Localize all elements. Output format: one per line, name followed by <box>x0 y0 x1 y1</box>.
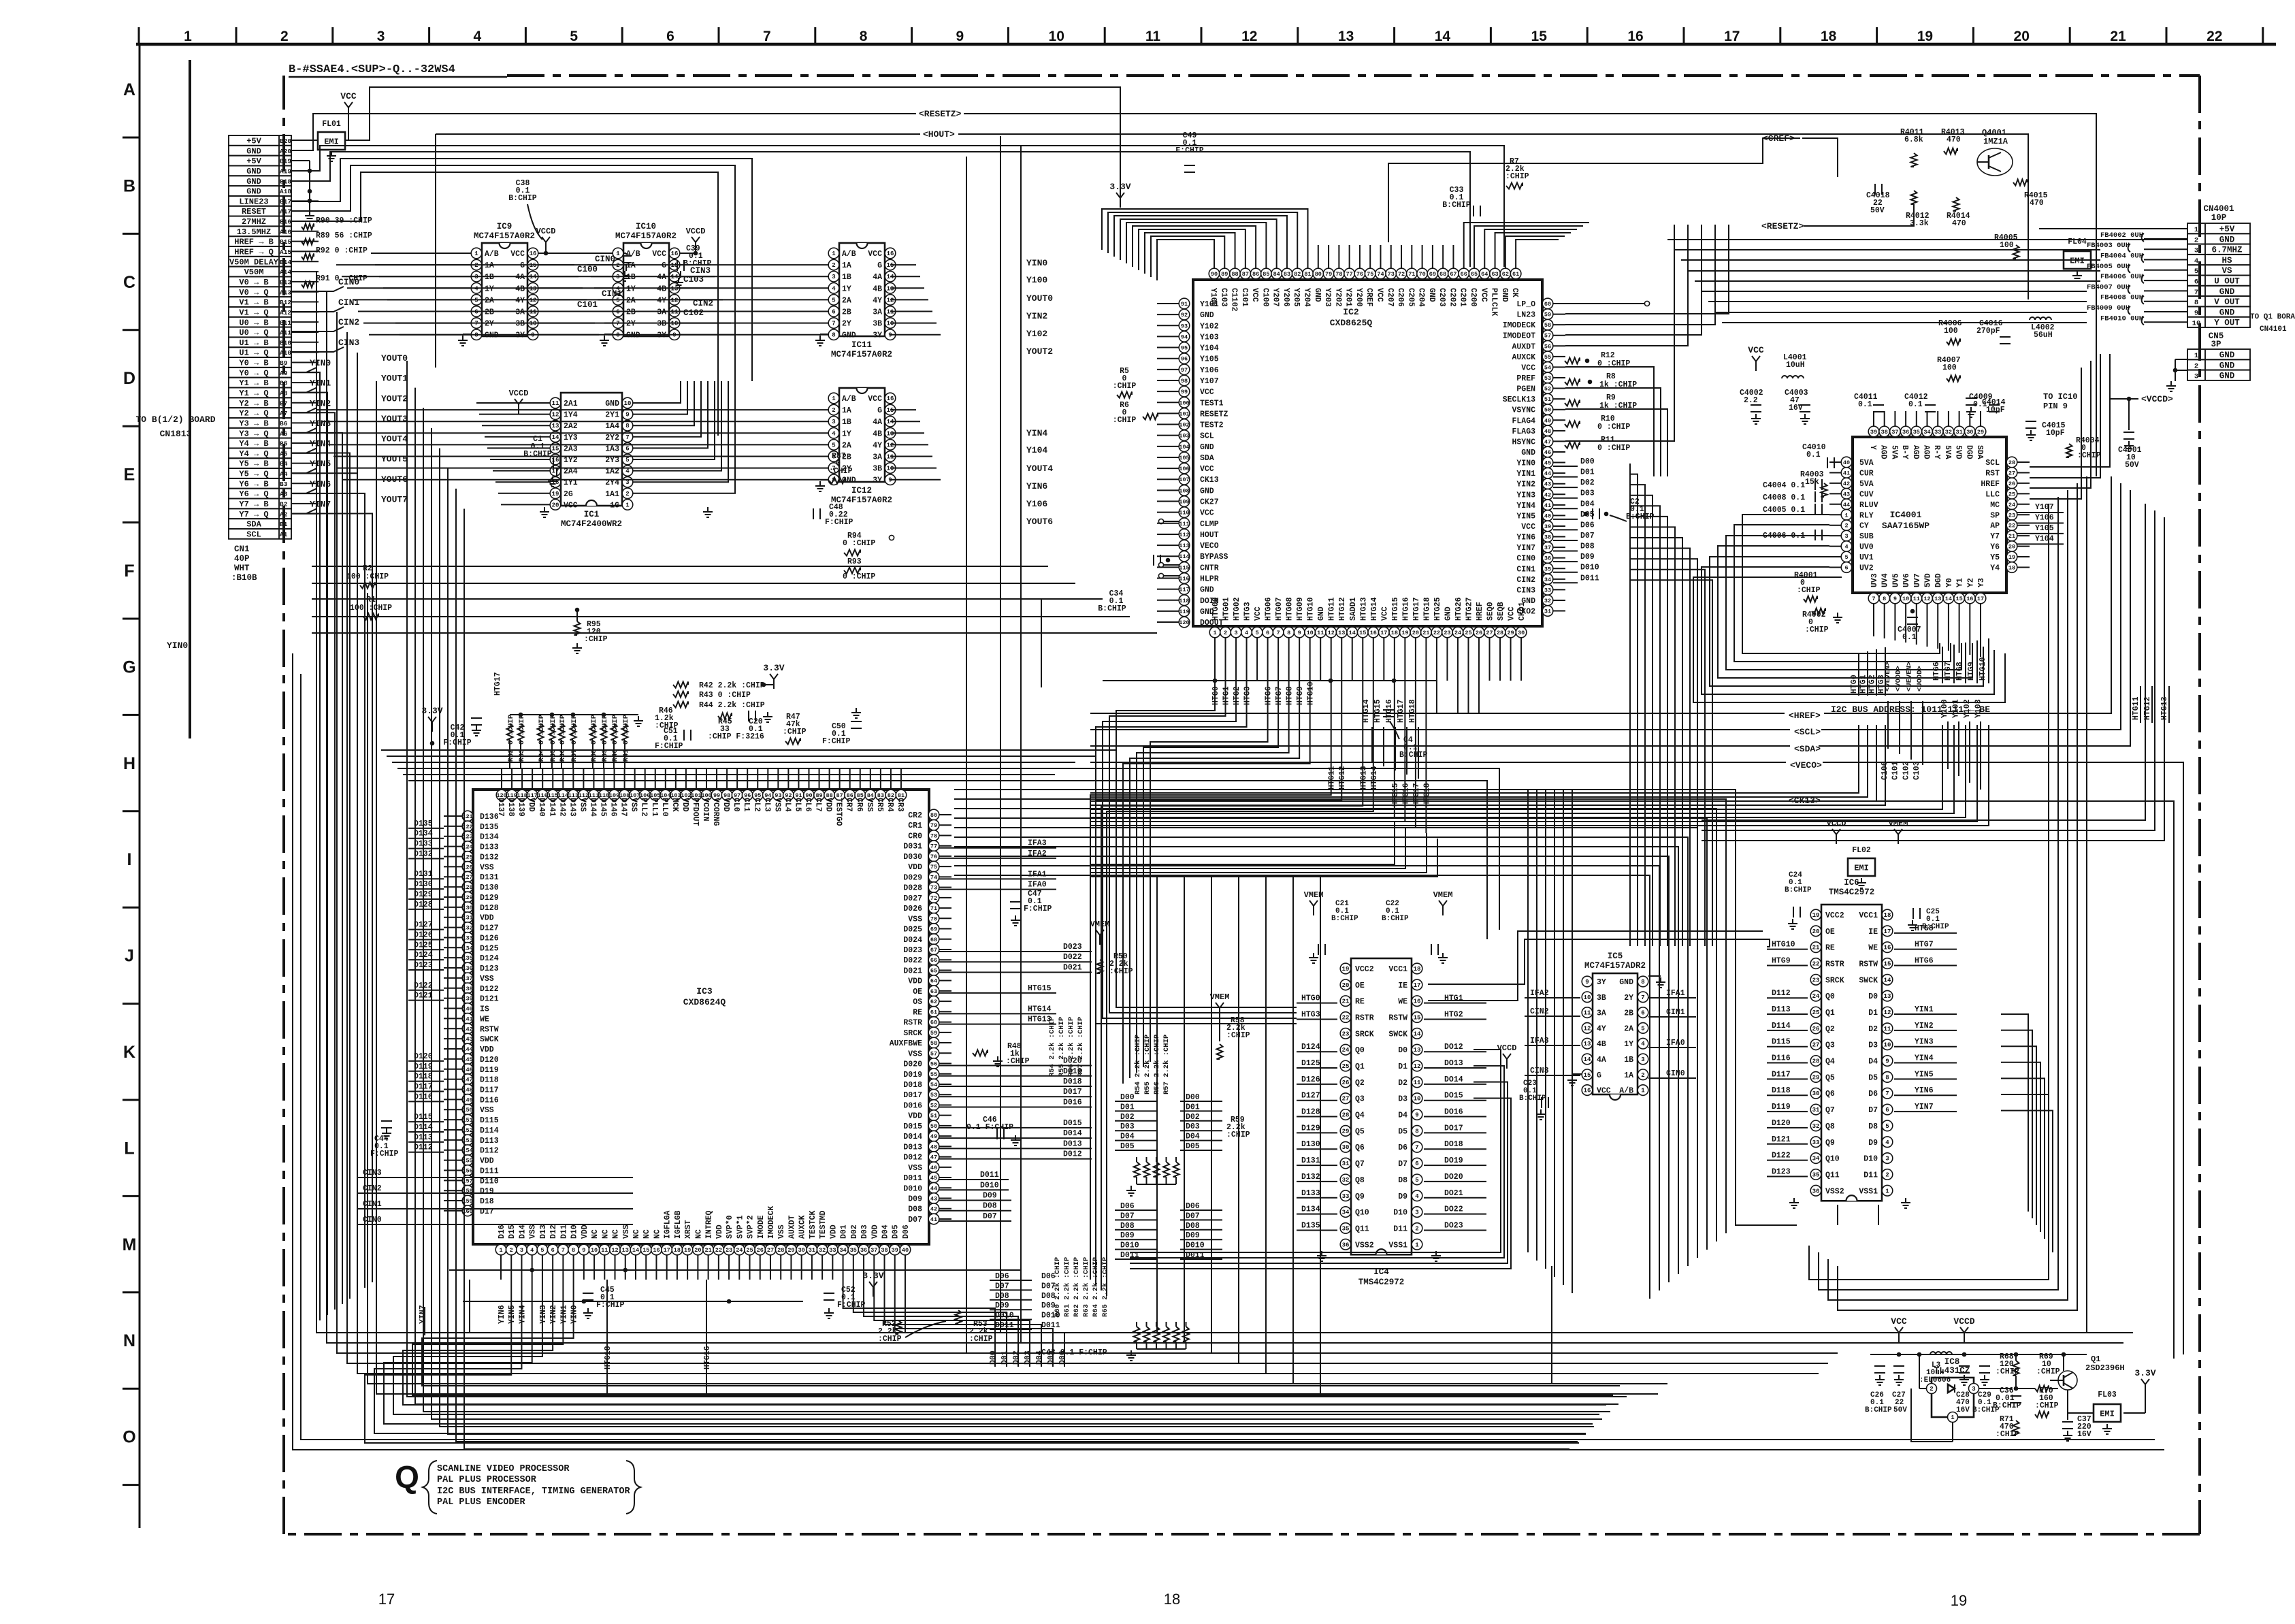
svg-text:D135: D135 <box>1301 1221 1320 1230</box>
svg-text:VCC: VCC <box>868 250 882 259</box>
svg-text:96: 96 <box>1181 356 1188 363</box>
svg-text:Y102: Y102 <box>1026 329 1047 339</box>
svg-text:C202: C202 <box>1448 288 1456 307</box>
svg-text:<RESETZ>: <RESETZ> <box>1761 221 1804 231</box>
svg-text:R54 2.2k :CHIP: R54 2.2k :CHIP <box>1134 1035 1142 1094</box>
svg-text:1: 1 <box>616 250 620 257</box>
svg-text:Q4: Q4 <box>1825 1058 1835 1067</box>
svg-text:5: 5 <box>1415 1177 1418 1184</box>
svg-text:TEST1: TEST1 <box>1200 399 1224 408</box>
svg-text:19: 19 <box>1917 29 1933 44</box>
wire bus IC6 bottom <box>1838 1205 1878 1225</box>
svg-text:MC74F2400WR2: MC74F2400WR2 <box>561 519 622 529</box>
resistor R11 <box>1565 436 1630 453</box>
regulator IC8 TL431CZ <box>1927 1357 1979 1423</box>
svg-text:D017: D017 <box>903 1091 922 1100</box>
svg-text:YOUT2: YOUT2 <box>1026 346 1053 357</box>
svg-text:CIN1: CIN1 <box>602 289 622 299</box>
svg-text:Q1: Q1 <box>1355 1062 1365 1071</box>
svg-text:FL01: FL01 <box>322 120 341 129</box>
svg-text:D09: D09 <box>1041 1301 1056 1310</box>
svg-text:D133: D133 <box>480 843 499 852</box>
svg-text:XRST: XRST <box>684 1220 693 1239</box>
svg-text:2: 2 <box>1415 1225 1418 1232</box>
svg-text:IC12: IC12 <box>851 486 872 496</box>
svg-text:B16: B16 <box>280 218 291 226</box>
svg-text:D026: D026 <box>903 905 922 913</box>
capacitor C4010 <box>1802 443 1834 468</box>
svg-text:AGD: AGD <box>1911 445 1920 459</box>
svg-text:HTG25: HTG25 <box>1433 597 1442 621</box>
svg-text:HTG7: HTG7 <box>1275 686 1284 705</box>
svg-text:1B: 1B <box>842 273 851 282</box>
svg-text:92: 92 <box>1181 312 1188 319</box>
svg-text:HTG00: HTG00 <box>1211 597 1220 621</box>
svg-text:2A1: 2A1 <box>564 400 578 408</box>
svg-text:CK27: CK27 <box>1200 498 1219 507</box>
svg-text:Q11: Q11 <box>1355 1224 1369 1233</box>
resistor labels R54-R57 col2 <box>1048 1017 1085 1077</box>
left ruler letters A-O <box>123 80 137 1447</box>
svg-text:D122: D122 <box>1772 1152 1791 1160</box>
svg-text:39: 39 <box>1870 429 1877 436</box>
svg-text:CREF: CREF <box>1365 288 1373 307</box>
svg-text:35: 35 <box>850 1247 857 1254</box>
svg-text:14: 14 <box>1945 596 1952 602</box>
svg-text:A6: A6 <box>280 430 288 438</box>
svg-text:49: 49 <box>1544 417 1551 424</box>
svg-text:1: 1 <box>1951 1414 1955 1421</box>
svg-text:WE: WE <box>1398 998 1407 1007</box>
svg-text:Y0: Y0 <box>1945 578 1954 587</box>
svg-text:2: 2 <box>1930 1386 1933 1393</box>
svg-text:4B: 4B <box>873 429 882 438</box>
svg-text:AUXDT: AUXDT <box>787 1215 796 1239</box>
svg-text:22: 22 <box>1812 961 1820 968</box>
svg-text:D118: D118 <box>1772 1086 1791 1095</box>
svg-text:D134: D134 <box>1301 1205 1320 1214</box>
svg-text:GND: GND <box>246 177 261 186</box>
svg-text:RSTR: RSTR <box>1825 960 1844 969</box>
svg-text:YIN6: YIN6 <box>1516 534 1535 542</box>
wire stubs IC4001 <box>1829 411 2030 617</box>
svg-text:HTG9: HTG9 <box>1296 686 1305 705</box>
svg-text:YIN2: YIN2 <box>1516 481 1535 489</box>
svg-text:AUXDT: AUXDT <box>1512 342 1535 351</box>
op-chip IC2 CX08625Q left pins <box>1179 298 1228 628</box>
svg-text:I2C BUS INTERFACE, TIMING GENE: I2C BUS INTERFACE, TIMING GENERATOR <box>437 1487 630 1497</box>
page number 19 <box>1951 1592 1967 1609</box>
svg-text:UV0: UV0 <box>1859 543 1874 552</box>
svg-text:AGD: AGD <box>1922 445 1931 459</box>
svg-text:RSTW: RSTW <box>480 1025 499 1034</box>
svg-text:D09: D09 <box>1580 553 1595 562</box>
svg-text:I: I <box>127 850 132 869</box>
svg-text:3: 3 <box>377 29 385 44</box>
resistor R43 <box>673 691 751 700</box>
svg-text:40P: 40P <box>234 554 250 564</box>
svg-text:5: 5 <box>832 442 835 449</box>
power 3.3V at IC2 top <box>1109 182 1130 208</box>
svg-text:0.1: 0.1 <box>749 725 763 734</box>
svg-text:12: 12 <box>1584 1025 1591 1032</box>
svg-text:FL03: FL03 <box>2098 1391 2117 1399</box>
svg-text:HTG18: HTG18 <box>1422 597 1431 621</box>
svg-text:4Y: 4Y <box>515 296 525 305</box>
svg-text:D017: D017 <box>1063 1088 1082 1097</box>
svg-text:IC2: IC2 <box>1343 307 1359 317</box>
regulator wires <box>1911 1354 2094 1442</box>
svg-text:TEST2: TEST2 <box>1200 421 1224 430</box>
svg-text:D1: D1 <box>1868 1009 1878 1018</box>
svg-text::B10B: :B10B <box>231 573 257 583</box>
svg-text:24: 24 <box>1454 630 1461 636</box>
svg-text:GND: GND <box>1427 288 1436 302</box>
svg-text:D141: D141 <box>547 798 556 817</box>
capacitor C45 <box>583 1286 625 1318</box>
capacitor C25 <box>1908 908 1949 931</box>
svg-text:12: 12 <box>1923 596 1930 602</box>
svg-text:3: 3 <box>832 274 835 280</box>
svg-text:470: 470 <box>1947 135 1961 144</box>
wire bus channel right of IC3 <box>954 790 1797 1299</box>
svg-text:VDD: VDD <box>581 1224 589 1239</box>
svg-text:D07: D07 <box>908 1216 922 1224</box>
svg-text:FB4004 0UH: FB4004 0UH <box>2100 253 2143 261</box>
svg-text:Q: Q <box>395 1459 419 1495</box>
svg-text:HS: HS <box>2221 256 2232 265</box>
svg-text:57: 57 <box>930 1050 937 1057</box>
wire RESETZ long <box>291 114 2096 476</box>
svg-text:YIN5: YIN5 <box>1915 1070 1934 1079</box>
ferrite bead FB4004 <box>2100 253 2187 263</box>
svg-text:20: 20 <box>1412 630 1419 636</box>
svg-text:68: 68 <box>930 937 937 943</box>
svg-text:EMI: EMI <box>2100 1410 2115 1419</box>
svg-text:D014: D014 <box>903 1133 922 1141</box>
svg-text:VDD: VDD <box>908 863 922 872</box>
power VCC near L4001 <box>1748 345 1764 371</box>
svg-text:2: 2 <box>832 262 835 269</box>
net labels HTG6-HTG10 vertical row <box>1932 657 1987 681</box>
svg-text:DO13: DO13 <box>1444 1059 1463 1068</box>
svg-text:SRCK: SRCK <box>1355 1030 1374 1039</box>
svg-text:YIN4: YIN4 <box>518 1305 527 1324</box>
svg-text:YOUT0: YOUT0 <box>381 353 408 363</box>
svg-text:50V: 50V <box>1870 206 1885 215</box>
svg-text:+5V: +5V <box>246 157 261 166</box>
svg-text:A7: A7 <box>280 410 288 417</box>
svg-text:100: 100 <box>1179 400 1189 406</box>
svg-text:2: 2 <box>1885 1171 1889 1178</box>
svg-text:14: 14 <box>1349 630 1356 636</box>
svg-text:CIN1: CIN1 <box>338 297 359 308</box>
svg-text:D1: D1 <box>1398 1062 1407 1071</box>
svg-text:1: 1 <box>1641 1088 1645 1094</box>
svg-text:Y4 → B: Y4 → B <box>239 439 268 449</box>
net label YIN0 lower <box>167 640 188 651</box>
svg-text:41: 41 <box>930 1216 937 1223</box>
svg-text:Q9: Q9 <box>1355 1192 1365 1201</box>
svg-text:A20: A20 <box>280 148 291 155</box>
svg-text:V50M DELAY: V50M DELAY <box>229 257 279 267</box>
svg-text:FB4003 0UH: FB4003 0UH <box>2087 242 2130 250</box>
memory IC4 TMS4C2972 <box>1297 958 1486 1287</box>
svg-text:17: 17 <box>1724 29 1740 44</box>
svg-text:Y106: Y106 <box>2035 513 2054 522</box>
svg-text:2: 2 <box>510 1247 513 1254</box>
svg-text:VCC: VCC <box>1200 388 1214 397</box>
svg-text:33: 33 <box>1544 587 1551 594</box>
svg-text:F: F <box>124 562 134 581</box>
svg-text:YIN3: YIN3 <box>539 1305 548 1324</box>
power VCCD at IC5 <box>1497 1043 1517 1069</box>
svg-text:Y1: Y1 <box>1956 578 1965 587</box>
svg-text:Y106: Y106 <box>1200 366 1219 375</box>
svg-text:42: 42 <box>1544 491 1551 498</box>
svg-text:4: 4 <box>1844 544 1848 551</box>
svg-text:31: 31 <box>1955 429 1962 436</box>
svg-text:D2: D2 <box>1398 1079 1407 1088</box>
svg-text:YIN7: YIN7 <box>1915 1103 1934 1111</box>
svg-text:50: 50 <box>930 1123 937 1130</box>
svg-text:56uH: 56uH <box>2034 331 2053 340</box>
svg-text:SAA7165WP: SAA7165WP <box>1882 521 1930 531</box>
svg-text:116: 116 <box>1179 576 1189 583</box>
svg-text:D011: D011 <box>1580 574 1599 583</box>
svg-text:19: 19 <box>552 491 559 498</box>
capacitor C1 <box>523 435 560 487</box>
svg-text:G: G <box>1597 1071 1601 1080</box>
svg-text:94: 94 <box>1181 334 1188 340</box>
ferrite bead FB4007 <box>2087 283 2187 293</box>
svg-text:D04: D04 <box>881 1224 890 1239</box>
svg-text:U0 → B: U0 → B <box>239 318 268 327</box>
svg-text:YIN1: YIN1 <box>1915 1005 1934 1014</box>
op-chip IC3 CXD8624Q bottom pins <box>495 1206 911 1255</box>
op-chip IC2 CX08625Q bottom pins <box>1209 597 1527 637</box>
svg-text:SDA: SDA <box>1975 445 1984 459</box>
svg-text:GND: GND <box>2219 308 2235 317</box>
svg-text:HSYNC: HSYNC <box>1512 438 1535 446</box>
ferrite bead FB4010 <box>2100 314 2187 325</box>
svg-text:YOUT2: YOUT2 <box>381 393 408 404</box>
svg-text:IFA0: IFA0 <box>1028 881 1047 890</box>
svg-text:41: 41 <box>1843 470 1850 476</box>
svg-text:IMODEOT: IMODEOT <box>1503 332 1535 341</box>
svg-text:23: 23 <box>1342 1030 1350 1037</box>
svg-text:2: 2 <box>2194 362 2198 370</box>
IC3 right net labels <box>939 839 1092 1221</box>
svg-text:RESET: RESET <box>242 207 266 216</box>
svg-text:NC: NC <box>591 1229 600 1239</box>
svg-text:D06: D06 <box>1580 521 1595 530</box>
svg-text:CIN2: CIN2 <box>338 317 359 327</box>
svg-text:D123: D123 <box>1772 1167 1791 1176</box>
svg-text:D132: D132 <box>480 853 499 862</box>
svg-text:HTG3: HTG3 <box>1301 1011 1320 1020</box>
svg-text:A11: A11 <box>280 329 291 337</box>
svg-text:2A: 2A <box>485 296 494 305</box>
svg-text:VCCD: VCCD <box>686 227 706 236</box>
svg-text:B:CHIP: B:CHIP <box>1382 915 1409 923</box>
net label YOUT5 <box>381 454 408 464</box>
svg-text:4Y: 4Y <box>1597 1024 1606 1033</box>
svg-text:105: 105 <box>1179 455 1189 461</box>
svg-text:64: 64 <box>1481 271 1488 278</box>
svg-text:12: 12 <box>1414 1063 1421 1070</box>
svg-text:30: 30 <box>1342 1144 1350 1151</box>
ferrite bead FB4006 <box>2100 273 2187 283</box>
net terminal CNTR <box>1158 562 1179 567</box>
connector CN1 name <box>231 545 257 583</box>
svg-text:MC74F157A0R2: MC74F157A0R2 <box>615 231 677 241</box>
svg-text:R39 0 :CHIP: R39 0 :CHIP <box>601 715 609 762</box>
svg-text:Y2 → Q: Y2 → Q <box>239 409 268 419</box>
svg-text:VSS: VSS <box>480 863 494 872</box>
svg-text:UV6: UV6 <box>1902 573 1911 587</box>
svg-text:GND: GND <box>605 400 619 408</box>
net label YIN0 <box>291 358 331 372</box>
ground IC11 pin8 <box>815 334 828 346</box>
svg-text:D04: D04 <box>1580 500 1595 508</box>
svg-text:9: 9 <box>1885 1058 1889 1065</box>
left ruler ticks <box>123 137 140 1485</box>
wire stubs IC3 top <box>502 769 901 790</box>
op-chip IC3 CXD8624Q name <box>683 986 726 1007</box>
svg-text:32: 32 <box>1945 429 1952 436</box>
svg-text:2Y1: 2Y1 <box>605 411 619 420</box>
wire bus below SAA loops <box>1693 515 2005 790</box>
svg-text:VCOIN: VCOIN <box>701 798 710 822</box>
svg-text:27: 27 <box>1486 630 1493 636</box>
svg-text:B13: B13 <box>280 278 291 286</box>
svg-text:F:CHIP: F:CHIP <box>822 737 851 746</box>
svg-text:Y201: Y201 <box>1344 288 1353 307</box>
svg-text:CKO1: CKO1 <box>1518 602 1527 621</box>
svg-text:DO19: DO19 <box>1444 1156 1463 1165</box>
svg-text:TL431CZ: TL431CZ <box>1934 1366 1970 1376</box>
net label YIN3 <box>291 419 331 433</box>
svg-text:D00: D00 <box>1580 457 1595 466</box>
svg-text:3B: 3B <box>515 320 525 329</box>
svg-text:<VCCD>: <VCCD> <box>2141 394 2173 404</box>
svg-text:HTG17: HTG17 <box>1412 597 1421 621</box>
svg-text:67: 67 <box>930 947 937 954</box>
svg-text:45: 45 <box>930 1175 937 1182</box>
svg-text:A13: A13 <box>280 289 291 296</box>
svg-text:66: 66 <box>1461 271 1467 278</box>
svg-text:VSS: VSS <box>578 798 587 812</box>
svg-text:VCC: VCC <box>340 91 357 101</box>
svg-text:RSTR: RSTR <box>1355 1014 1374 1023</box>
svg-text:Y107: Y107 <box>1200 377 1219 386</box>
svg-text:YOUT4: YOUT4 <box>1026 464 1053 474</box>
svg-text:GND: GND <box>626 331 640 340</box>
svg-text:3Y: 3Y <box>873 476 882 485</box>
svg-text:56: 56 <box>1544 343 1551 350</box>
svg-text:4: 4 <box>832 430 836 437</box>
svg-text:HTG26: HTG26 <box>1454 597 1463 621</box>
svg-text:VSS1: VSS1 <box>1388 1241 1407 1250</box>
svg-text:Y7: Y7 <box>1990 532 2000 541</box>
svg-text:3: 3 <box>2194 247 2198 255</box>
svg-text:D024: D024 <box>903 936 922 945</box>
svg-text:DO15: DO15 <box>1444 1092 1463 1101</box>
svg-text:31: 31 <box>1544 608 1551 615</box>
resistor R4004 <box>2066 436 2101 460</box>
svg-text:UV7: UV7 <box>1913 573 1922 587</box>
note TO Q1 BORA CN4101 <box>2250 313 2295 334</box>
svg-text:D09: D09 <box>983 1192 997 1201</box>
svg-text:2: 2 <box>1844 523 1848 530</box>
svg-text:47: 47 <box>930 1154 937 1161</box>
svg-text:IC8: IC8 <box>1944 1357 1960 1367</box>
wire stubs IC2 top <box>1102 209 1589 280</box>
svg-text:D128: D128 <box>480 904 499 913</box>
svg-text:6: 6 <box>2194 278 2198 287</box>
svg-text:Y: Y <box>1868 445 1877 450</box>
svg-text:1: 1 <box>2194 226 2198 234</box>
svg-text:4Y: 4Y <box>873 296 882 305</box>
svg-text:Q7: Q7 <box>1825 1106 1835 1115</box>
svg-text:D5: D5 <box>1398 1127 1407 1136</box>
svg-text:55: 55 <box>930 1071 937 1078</box>
svg-text:LP_O: LP_O <box>1516 300 1535 309</box>
svg-text:CL0: CL0 <box>732 798 740 812</box>
svg-text:D07: D07 <box>1580 532 1595 540</box>
svg-text:51: 51 <box>930 1113 937 1120</box>
svg-text:5: 5 <box>1256 630 1259 636</box>
svg-text:NC: NC <box>642 1229 651 1239</box>
note I2C BUS ADDRESS <box>1831 704 1990 715</box>
svg-text:36: 36 <box>860 1247 867 1254</box>
svg-text:55: 55 <box>1544 354 1551 361</box>
svg-text:5: 5 <box>832 297 835 304</box>
svg-text:GND: GND <box>2219 361 2235 370</box>
svg-text:103: 103 <box>1179 433 1189 440</box>
svg-text:113: 113 <box>1179 542 1189 549</box>
svg-text:38: 38 <box>881 1247 888 1254</box>
svg-text:4: 4 <box>1641 1041 1645 1048</box>
svg-text:HREF → Q: HREF → Q <box>234 248 274 257</box>
resistor R42 <box>673 681 765 690</box>
svg-text:29: 29 <box>1977 429 1984 436</box>
svg-text:PLL0: PLL0 <box>660 798 669 817</box>
net labels CIN3-CIN0 left of IC3 <box>358 1169 633 1224</box>
capacitor C52 <box>824 1286 866 1318</box>
svg-text:D015: D015 <box>1063 1119 1082 1128</box>
svg-text:D023: D023 <box>903 946 922 955</box>
svg-text:GND: GND <box>2219 372 2235 381</box>
net label YIN7 <box>291 499 331 513</box>
svg-text:TO B(1/2) BOARD: TO B(1/2) BOARD <box>135 415 215 425</box>
svg-text:19: 19 <box>1951 1592 1967 1609</box>
resistor R9 <box>1565 393 1637 410</box>
capacitor C48 <box>813 503 853 527</box>
net label YIN1 <box>291 378 331 393</box>
svg-text:RSTW: RSTW <box>1388 1014 1407 1023</box>
wire GND rows junctions <box>291 161 314 221</box>
svg-text:N: N <box>123 1331 135 1350</box>
svg-text:21: 21 <box>1422 630 1429 636</box>
resistor R4012 <box>1906 191 1930 228</box>
svg-text:D119: D119 <box>480 1066 499 1075</box>
svg-text:U OUT: U OUT <box>2214 277 2240 287</box>
svg-text:0.1 F:CHIP: 0.1 F:CHIP <box>966 1123 1013 1132</box>
svg-text:49: 49 <box>930 1133 937 1140</box>
svg-text:D03: D03 <box>1580 489 1595 498</box>
